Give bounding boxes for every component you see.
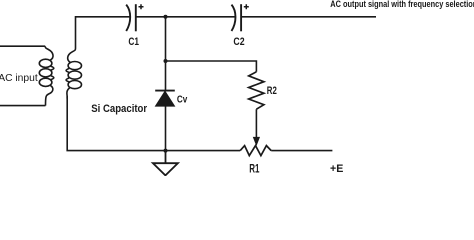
wire: secondary top to C1 <box>76 17 130 49</box>
AC input source box <box>0 46 46 105</box>
svg-text:Si Capacitor: Si Capacitor <box>91 103 147 115</box>
wire: R2 to wiper arrow <box>255 109 257 138</box>
node: ground rail junction <box>164 149 168 153</box>
svg-text:+E: +E <box>330 163 344 175</box>
transformer primary winding L1 <box>39 46 54 105</box>
wire: Cv to ground rail <box>165 106 167 151</box>
C2 plus sign <box>244 4 249 9</box>
svg-text:R1: R1 <box>249 163 260 175</box>
capacitor C1 (polarized) <box>126 4 136 31</box>
svg-text:AC input: AC input <box>0 73 38 84</box>
node: junction to R2 branch <box>164 59 168 63</box>
svg-text:R2: R2 <box>267 85 277 97</box>
wire: secondary bottom to ground rail <box>67 96 240 150</box>
svg-text:Cv: Cv <box>177 95 188 106</box>
wire: branch to R2 <box>166 61 257 72</box>
svg-text:AC output signal with frequenc: AC output signal with frequency selectio… <box>330 0 474 9</box>
wire: C1 to C2 <box>136 16 235 18</box>
wire: C2 to output <box>241 16 376 18</box>
varactor diode Cv <box>155 91 175 106</box>
node: junction of C1, C2 and Cv branch <box>164 15 168 19</box>
potentiometer R1 <box>240 146 271 156</box>
capacitor C2 (polarized) <box>232 4 242 31</box>
wiper arrowhead into R1 <box>254 137 260 145</box>
svg-text:C2: C2 <box>233 36 244 48</box>
ground symbol <box>153 151 178 176</box>
svg-text:C1: C1 <box>128 36 139 48</box>
resistor R2 <box>249 72 264 109</box>
wire: R1 to +E <box>271 150 332 152</box>
transformer secondary winding L2 <box>66 49 81 99</box>
C1 plus sign <box>139 4 144 9</box>
wire: top junction down to Cv <box>165 17 167 90</box>
